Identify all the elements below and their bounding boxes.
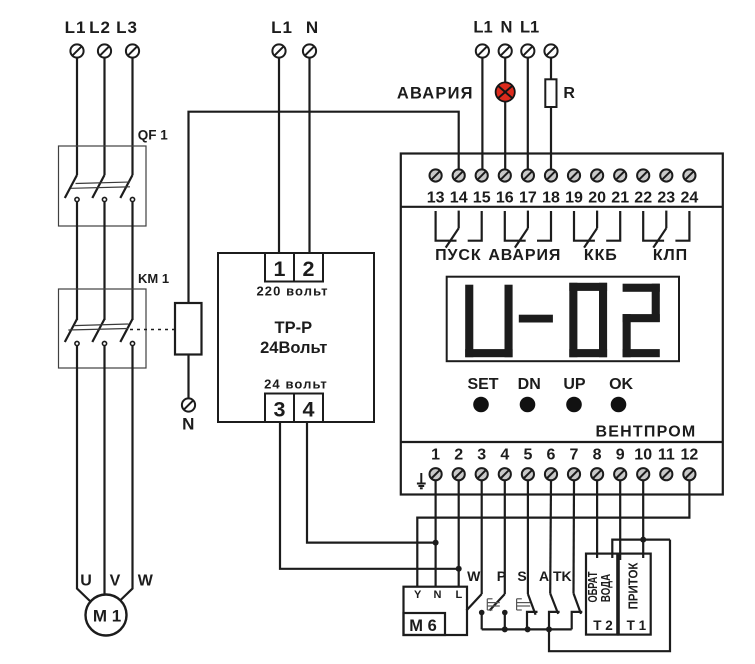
svg-text:W: W bbox=[467, 568, 481, 584]
svg-text:11: 11 bbox=[658, 447, 675, 464]
svg-text:24 вольт: 24 вольт bbox=[264, 377, 328, 392]
controller terminal 12 bbox=[683, 468, 695, 480]
controller terminal 20 bbox=[591, 169, 603, 181]
svg-text:L1: L1 bbox=[65, 18, 87, 37]
svg-text:6: 6 bbox=[547, 447, 556, 464]
wire N through lamp to terminal 16 bbox=[504, 58, 506, 169]
switch A blade bbox=[550, 593, 558, 614]
switch W blade bbox=[466, 594, 481, 611]
breaker QF1 pole 2 bbox=[92, 175, 106, 202]
wire KM1 to motor W bbox=[118, 346, 133, 603]
wire terminal9 to sensor T1 bbox=[619, 481, 621, 560]
controller terminal 15 bbox=[476, 169, 488, 181]
svg-text:V: V bbox=[110, 573, 121, 590]
svg-text:Y: Y bbox=[414, 589, 422, 601]
svg-text:N: N bbox=[434, 589, 442, 601]
svg-text:OK: OK bbox=[609, 376, 633, 393]
button UP bbox=[566, 397, 582, 413]
wire terminal8 to sensor T2 bbox=[596, 481, 598, 558]
controller terminal 6 bbox=[545, 468, 557, 480]
pressure comb symbol S bbox=[517, 599, 531, 610]
wire bus to sensor common loop bbox=[549, 540, 670, 652]
controller terminal 24 bbox=[683, 169, 695, 181]
svg-text:2: 2 bbox=[303, 257, 315, 281]
svg-text:N: N bbox=[501, 19, 513, 37]
svg-text:18: 18 bbox=[542, 190, 560, 207]
svg-text:ККБ: ККБ bbox=[584, 247, 618, 264]
svg-text:14: 14 bbox=[450, 190, 468, 207]
junction dot bus S bbox=[525, 626, 531, 632]
svg-text:16: 16 bbox=[496, 190, 514, 207]
TP-P terminal 1 bbox=[265, 253, 294, 282]
junction dot L node bbox=[456, 566, 462, 572]
controller terminal 11 bbox=[660, 468, 672, 480]
controller terminal 13 bbox=[430, 169, 442, 181]
wire N to TP-P 2 bbox=[308, 58, 310, 253]
button DN bbox=[520, 397, 536, 413]
sensor T1 box bbox=[619, 554, 651, 635]
wire TP-P 3 to L node bbox=[280, 422, 457, 569]
switch W contact dot bbox=[479, 610, 485, 616]
junction dot bus A bbox=[546, 626, 552, 632]
wire terminal5 to switch S bbox=[527, 481, 529, 594]
svg-text:R: R bbox=[563, 85, 575, 102]
switch P blade bbox=[490, 594, 505, 611]
svg-text:ТР-Р: ТР-Р bbox=[275, 319, 313, 337]
svg-text:N: N bbox=[182, 415, 194, 434]
svg-text:М 1: М 1 bbox=[93, 607, 121, 626]
switch P contact stem bbox=[504, 613, 506, 630]
display digit 0 bbox=[569, 283, 607, 357]
M6 inner box bbox=[404, 613, 446, 635]
terminal L1a (right) bbox=[476, 44, 489, 57]
wire L3 to QF1 bbox=[131, 58, 133, 175]
alarm lamp HL bbox=[496, 82, 515, 101]
terminal N (right) bbox=[499, 44, 512, 57]
svg-text:1: 1 bbox=[274, 257, 286, 281]
wire terminal6 to switch A bbox=[549, 481, 552, 593]
svg-text:L1: L1 bbox=[473, 19, 492, 37]
controller top strip line bbox=[401, 206, 723, 208]
svg-text:ПУСК: ПУСК bbox=[435, 247, 481, 264]
terminal L3 bbox=[126, 44, 139, 57]
svg-text:12: 12 bbox=[681, 447, 699, 464]
mechanical link dotted KM1 to coil bbox=[130, 329, 175, 331]
svg-text:АВАРИЯ: АВАРИЯ bbox=[488, 247, 561, 264]
svg-text:UP: UP bbox=[563, 376, 586, 393]
switch common bus bbox=[482, 628, 572, 630]
wire L1 to TP-P 1 bbox=[278, 58, 280, 253]
relay contact KLP bbox=[643, 211, 689, 248]
terminal L1b (right) bbox=[521, 44, 534, 57]
breaker QF1 pole 1 bbox=[65, 175, 79, 202]
wire terminal12 to M6 Y bbox=[417, 481, 689, 587]
switch TK contact bbox=[572, 612, 583, 630]
svg-text:DN: DN bbox=[518, 376, 541, 393]
svg-text:S: S bbox=[517, 568, 526, 584]
transformer TP-P box bbox=[218, 253, 374, 422]
controller terminal 10 bbox=[637, 468, 649, 480]
svg-text:N: N bbox=[306, 18, 318, 37]
svg-text:1: 1 bbox=[431, 447, 440, 464]
controller terminal 22 bbox=[637, 169, 649, 181]
controller terminal 3 bbox=[476, 468, 488, 480]
wire through resistor to terminal 18 bbox=[550, 58, 552, 169]
svg-text:17: 17 bbox=[519, 190, 537, 207]
svg-text:24: 24 bbox=[681, 190, 699, 207]
junction dot N node bbox=[433, 540, 439, 546]
controller terminal 23 bbox=[660, 169, 672, 181]
junction dot sensor common bbox=[640, 537, 646, 543]
wire terminal7 to switch TK bbox=[572, 481, 575, 593]
controller terminal 9 bbox=[614, 468, 626, 480]
svg-text:Т 1: Т 1 bbox=[627, 618, 647, 633]
controller terminal 21 bbox=[614, 169, 626, 181]
contactor KM1 linkage bars bbox=[68, 324, 128, 330]
svg-text:TK: TK bbox=[553, 568, 572, 584]
switch TK blade bbox=[574, 593, 582, 614]
wire terminal4 to switch P bbox=[504, 481, 506, 594]
wire TP-P 4 to N node bbox=[307, 422, 434, 543]
svg-text:3: 3 bbox=[477, 447, 486, 464]
controller terminal 1 bbox=[430, 468, 442, 480]
svg-text:4: 4 bbox=[303, 398, 315, 422]
switch S blade bbox=[528, 594, 536, 615]
wire L1b to terminal 17 bbox=[527, 58, 529, 169]
controller terminal 7 bbox=[568, 468, 580, 480]
controller bottom strip line bbox=[401, 441, 723, 443]
wire terminal3 to switch W bbox=[481, 481, 483, 594]
relay contact KKB bbox=[574, 211, 620, 248]
controller terminal 18 bbox=[545, 169, 557, 181]
svg-text:U: U bbox=[80, 573, 92, 590]
controller terminal 17 bbox=[522, 169, 534, 181]
svg-text:М 6: М 6 bbox=[409, 617, 437, 635]
controller terminal 19 bbox=[568, 169, 580, 181]
wire coil top to terminal 14 bbox=[189, 112, 459, 303]
wire QF1 to KM1 phase1 bbox=[76, 202, 78, 320]
breaker QF1 pole 3 bbox=[120, 175, 134, 202]
wire coil bottom to N terminal bbox=[187, 355, 189, 399]
controller terminal 4 bbox=[499, 468, 511, 480]
contactor KM1 box bbox=[59, 289, 147, 368]
svg-text:9: 9 bbox=[616, 447, 625, 464]
button OK bbox=[611, 397, 627, 413]
wire L1 to QF1 bbox=[76, 58, 78, 175]
svg-text:23: 23 bbox=[657, 190, 675, 207]
TP-P terminal 3 bbox=[265, 394, 294, 423]
display dash bbox=[519, 315, 553, 323]
controller terminal 5 bbox=[522, 468, 534, 480]
svg-text:13: 13 bbox=[427, 190, 445, 207]
contactor coil KM1 bbox=[175, 303, 202, 355]
terminal L1 (mid) bbox=[272, 44, 285, 57]
controller U-02 body bbox=[401, 154, 723, 495]
controller terminal 14 bbox=[453, 169, 465, 181]
TP-P terminal 2 bbox=[294, 253, 323, 282]
svg-text:21: 21 bbox=[611, 190, 629, 207]
svg-text:L1: L1 bbox=[271, 18, 293, 37]
breaker QF1 linkage bars bbox=[71, 182, 130, 188]
svg-text:L1: L1 bbox=[520, 19, 539, 37]
contactor KM1 pole 1 bbox=[65, 319, 79, 346]
wire KM1 to motor U bbox=[77, 346, 92, 603]
svg-text:KM 1: KM 1 bbox=[138, 271, 169, 286]
terminal N (coil) bbox=[182, 398, 195, 411]
svg-text:8: 8 bbox=[593, 447, 602, 464]
svg-text:15: 15 bbox=[473, 190, 491, 207]
wire terminal2 to M6 L bbox=[458, 481, 460, 587]
contactor KM1 pole 2 bbox=[92, 319, 106, 346]
svg-text:7: 7 bbox=[570, 447, 579, 464]
wire sensor common horizontal bbox=[612, 540, 670, 558]
pressure comb symbol P bbox=[487, 599, 500, 610]
switch A contact bbox=[549, 612, 560, 630]
button SET bbox=[473, 397, 489, 413]
display digit 2 bbox=[623, 284, 660, 358]
svg-text:SET: SET bbox=[467, 376, 498, 393]
wire L2 to QF1 bbox=[103, 58, 105, 175]
relay contact AVARIA bbox=[505, 211, 551, 248]
svg-text:220 вольт: 220 вольт bbox=[256, 283, 328, 298]
switch P contact dot bbox=[502, 610, 508, 616]
switch S contact bbox=[527, 612, 538, 630]
display window bbox=[447, 277, 679, 362]
svg-text:Т 2: Т 2 bbox=[593, 618, 613, 633]
junction dot bus P bbox=[502, 626, 508, 632]
wire terminal10 to sensor T1 bbox=[642, 481, 644, 558]
svg-text:L2: L2 bbox=[89, 18, 111, 37]
svg-text:ОБРАТ: ОБРАТ bbox=[587, 571, 601, 602]
svg-text:ПРИТОК: ПРИТОК bbox=[626, 562, 641, 610]
svg-text:22: 22 bbox=[634, 190, 652, 207]
wire QF1 to KM1 phase3 bbox=[131, 202, 133, 320]
svg-text:3: 3 bbox=[274, 398, 286, 422]
svg-text:5: 5 bbox=[523, 447, 532, 464]
svg-text:КЛП: КЛП bbox=[653, 247, 688, 264]
svg-text:ВЕНТПРОМ: ВЕНТПРОМ bbox=[596, 424, 697, 441]
controller terminal 8 bbox=[591, 468, 603, 480]
wire L1a to terminal 15 bbox=[481, 58, 483, 169]
wire QF1 to KM1 phase2 bbox=[103, 202, 105, 320]
display digit U bbox=[465, 285, 512, 358]
terminal L2 bbox=[98, 44, 111, 57]
svg-text:QF 1: QF 1 bbox=[138, 128, 168, 143]
svg-text:19: 19 bbox=[565, 190, 583, 207]
svg-text:W: W bbox=[138, 573, 154, 590]
svg-text:L: L bbox=[456, 589, 463, 601]
controller terminal 2 bbox=[453, 468, 465, 480]
svg-text:A: A bbox=[539, 568, 549, 584]
svg-text:10: 10 bbox=[634, 447, 652, 464]
svg-text:2: 2 bbox=[454, 447, 463, 464]
controller terminal 16 bbox=[499, 169, 511, 181]
contactor KM1 pole 3 bbox=[120, 319, 134, 346]
terminal N (mid) bbox=[303, 44, 316, 57]
TP-P terminal 4 bbox=[294, 394, 323, 423]
relay contact PUSK bbox=[436, 211, 482, 248]
svg-text:4: 4 bbox=[500, 447, 509, 464]
wire terminal1 to M6 N bbox=[435, 481, 437, 587]
svg-text:L3: L3 bbox=[116, 18, 138, 37]
wire KM1 to motor V bbox=[103, 346, 105, 595]
terminal L1 bbox=[70, 44, 83, 57]
svg-text:P: P bbox=[497, 568, 506, 584]
actuator M6 box bbox=[404, 587, 468, 635]
svg-text:ВОДА: ВОДА bbox=[600, 574, 613, 602]
ground symbol bbox=[417, 473, 426, 488]
svg-text:24Вольт: 24Вольт bbox=[260, 339, 327, 357]
svg-text:АВАРИЯ: АВАРИЯ bbox=[397, 84, 474, 102]
resistor R bbox=[545, 79, 556, 107]
svg-text:20: 20 bbox=[588, 190, 606, 207]
motor M1 bbox=[86, 595, 127, 636]
terminal R top bbox=[544, 44, 557, 57]
breaker QF1 box bbox=[59, 146, 147, 226]
sensor T2 box bbox=[586, 554, 617, 635]
switch W contact stem bbox=[481, 613, 483, 630]
